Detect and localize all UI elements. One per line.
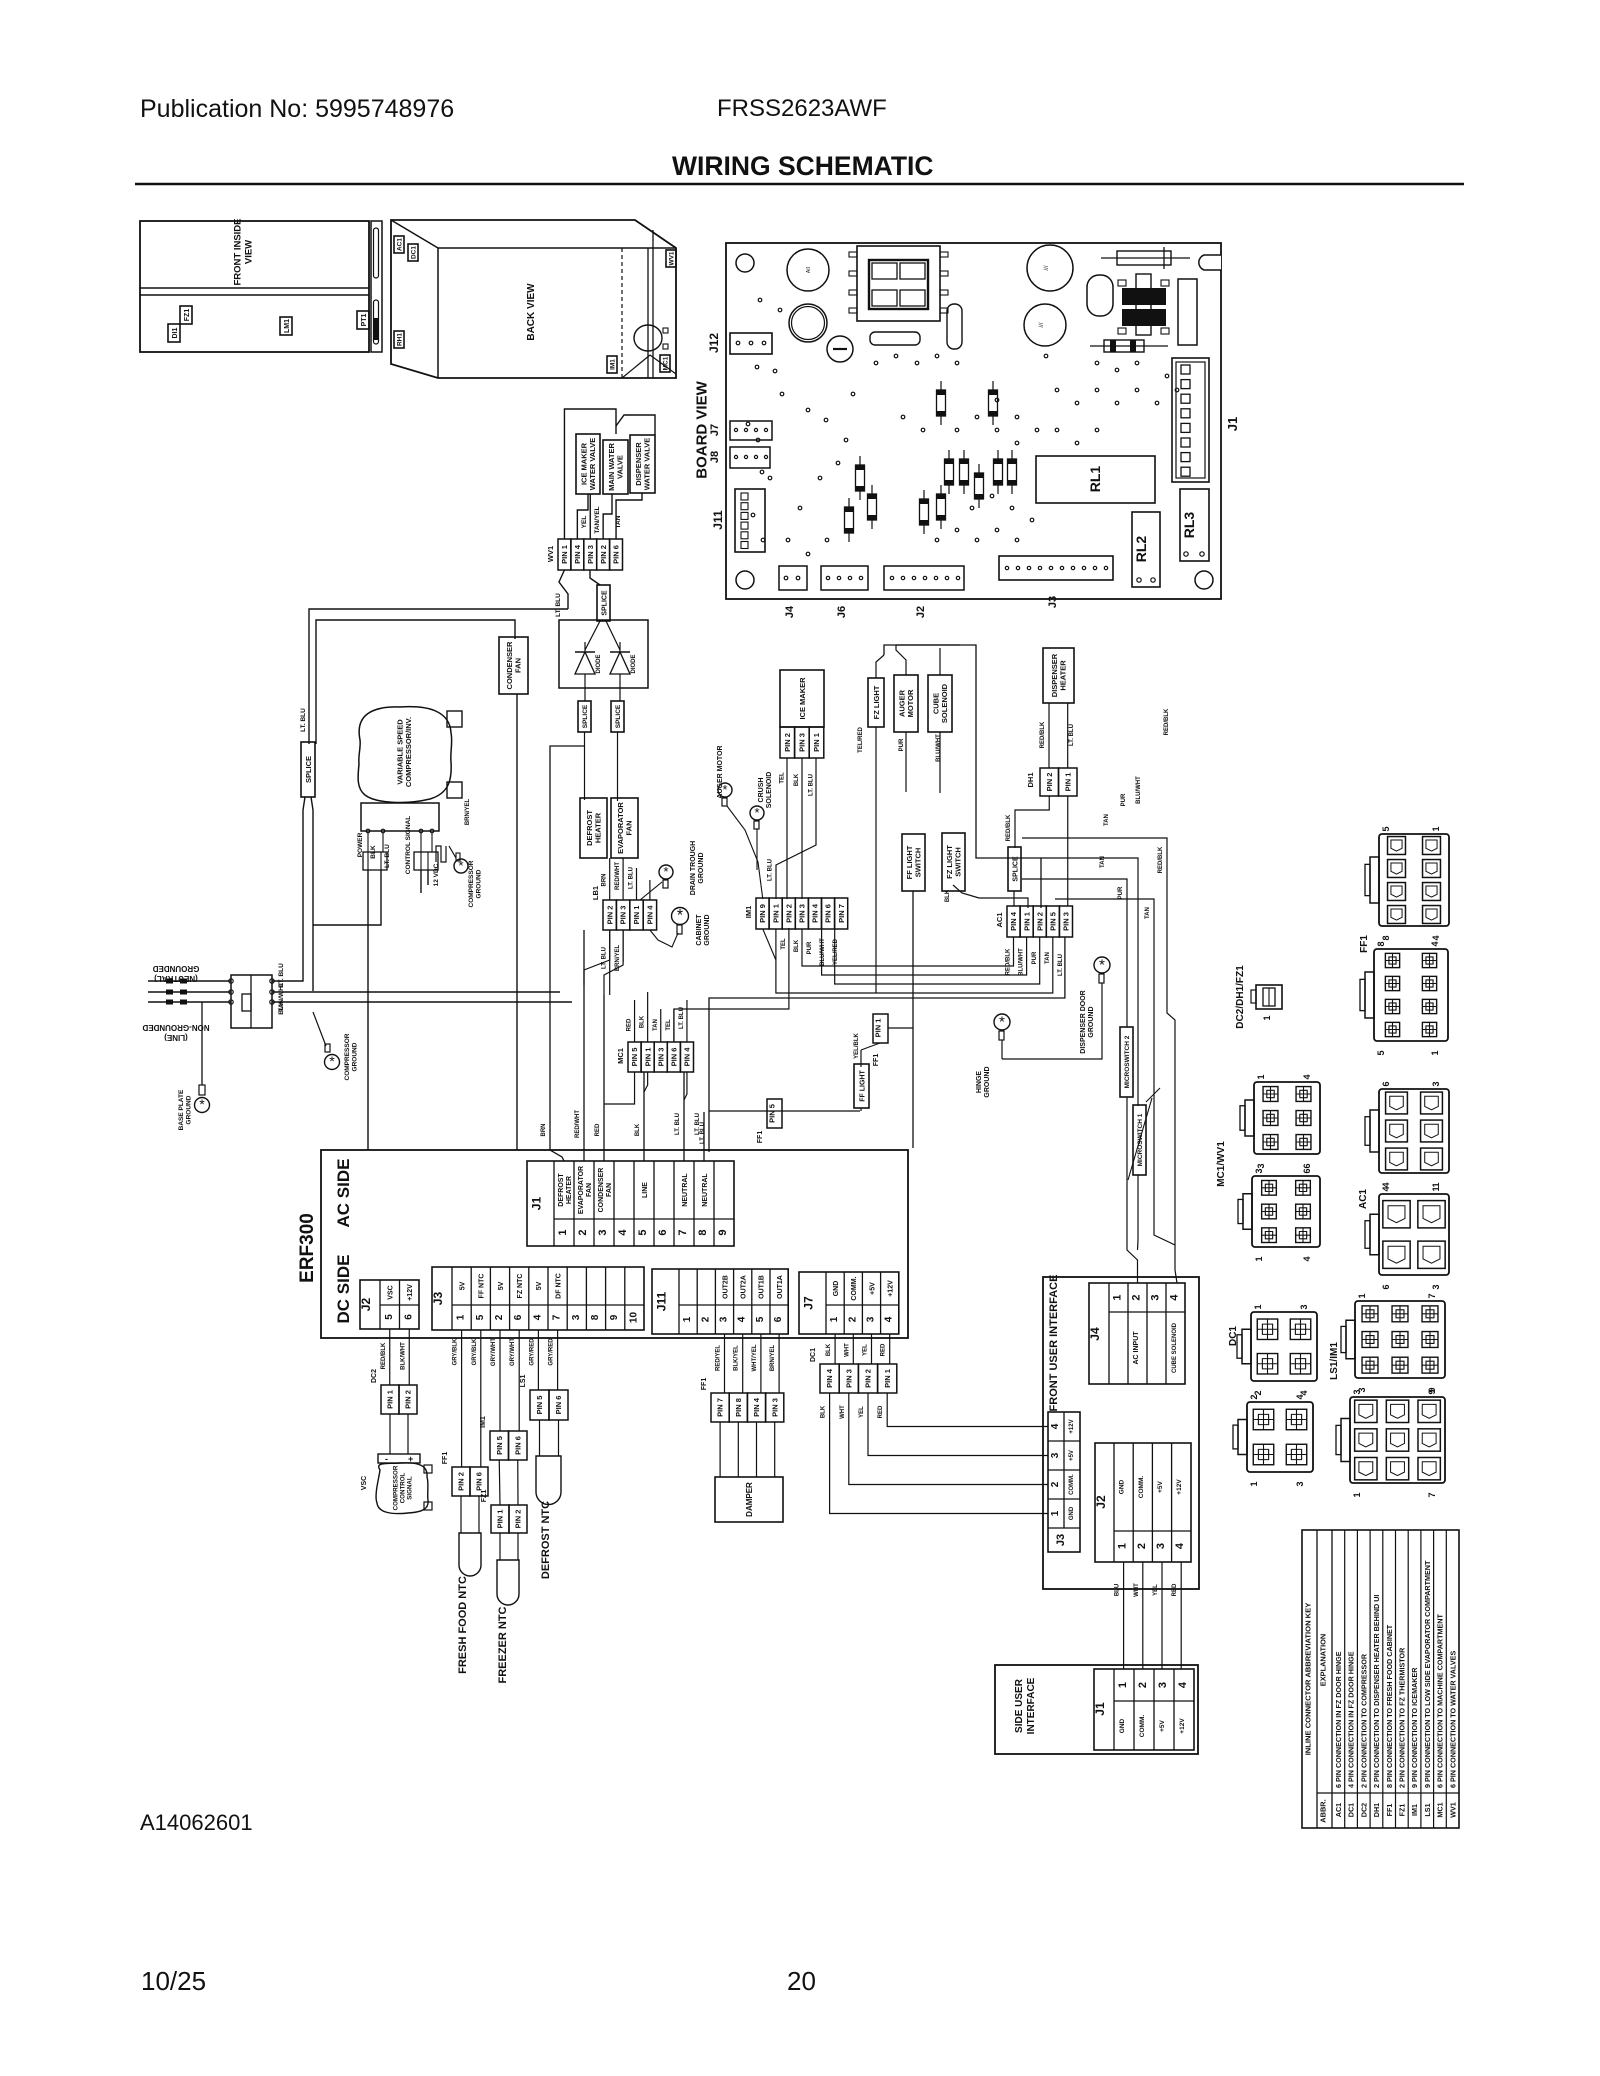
svg-text:+12V: +12V — [1069, 1419, 1075, 1433]
svg-text:5V: 5V — [459, 1281, 466, 1290]
back view outline — [391, 220, 676, 378]
svg-text:2 PIN CONNECTION TO DISPENSER: 2 PIN CONNECTION TO DISPENSER HEATER BEH… — [1372, 1595, 1381, 1788]
svg-text:5: 5 — [1376, 1050, 1386, 1055]
svg-text:PIN 1: PIN 1 — [1063, 773, 1072, 792]
wires DC1 to front UI J3 — [830, 1393, 1048, 1514]
defrost NTC bulb — [539, 1420, 541, 1456]
svg-text:CRUSH: CRUSH — [758, 778, 765, 803]
svg-text:3: 3 — [1155, 1543, 1167, 1549]
label DC1 back — [408, 244, 418, 261]
label non-grounded line — [142, 1023, 209, 1042]
power cord lines — [148, 980, 231, 982]
board resistor R-top — [1101, 257, 1190, 259]
diode D2 — [610, 652, 630, 674]
board connector J12 — [730, 333, 772, 354]
wire splice1 branch to board rail — [550, 746, 585, 1161]
label PT1 — [357, 311, 369, 329]
svg-text:PUR: PUR — [807, 941, 813, 954]
control signal wires down — [420, 870, 422, 893]
DC2 pin header — [381, 1385, 399, 1414]
svg-text:1: 1 — [1262, 1015, 1272, 1020]
svg-text:FF1: FF1 — [757, 1131, 764, 1144]
svg-text:RL1: RL1 — [1087, 466, 1103, 493]
board cap small — [870, 332, 920, 345]
svg-text:DISPENSER DOOR: DISPENSER DOOR — [1080, 990, 1087, 1053]
svg-text:GRY/WHT: GRY/WHT — [510, 1338, 516, 1366]
svg-text:6 PIN CONNECTION TO WATER VALV: 6 PIN CONNECTION TO WATER VALVES — [1448, 1651, 1457, 1788]
wire evap to LB1 RED/WHT — [622, 858, 624, 900]
svg-text:PIN 6: PIN 6 — [513, 1436, 522, 1455]
svg-text:GND: GND — [1119, 1479, 1126, 1494]
svg-text:FRESH FOOD NTC: FRESH FOOD NTC — [457, 1576, 469, 1674]
svg-text:7: 7 — [1427, 1492, 1437, 1497]
svg-text:RED/BLK: RED/BLK — [381, 1342, 387, 1369]
dispenser heater box — [1043, 648, 1074, 703]
condenser fan — [499, 637, 528, 694]
wire J3 col2 GRY/WHT — [499, 1330, 501, 1431]
svg-text:NEUTRAL: NEUTRAL — [702, 1173, 709, 1207]
wire J7 col1 BLK — [834, 1334, 836, 1364]
svg-text:PIN 1: PIN 1 — [560, 545, 569, 564]
board connector J2 — [884, 566, 964, 590]
wire TEL IM1 pin2 to MC1 — [674, 928, 789, 1042]
svg-text:OUT2B: OUT2B — [722, 1275, 729, 1299]
svg-text:J2: J2 — [359, 1298, 373, 1312]
svg-text:FF1: FF1 — [701, 1378, 708, 1391]
svg-text:PIN 6: PIN 6 — [612, 545, 621, 564]
svg-text:NEUTRAL: NEUTRAL — [682, 1173, 689, 1207]
12 VDC square wave — [436, 846, 446, 862]
svg-text:COMPRESSOR/INV.: COMPRESSOR/INV. — [404, 717, 413, 787]
svg-text:J3: J3 — [1055, 1534, 1067, 1546]
svg-text:1: 1 — [1254, 1256, 1264, 1261]
svg-text:GROUND: GROUND — [475, 869, 482, 898]
svg-text:RED: RED — [627, 1018, 633, 1031]
svg-text:PIN 2: PIN 2 — [783, 733, 792, 752]
svg-text:DC1: DC1 — [411, 246, 418, 259]
svg-text:WIRING SCHEMATIC: WIRING SCHEMATIC — [672, 151, 934, 181]
label FZ1 — [180, 306, 192, 324]
svg-text:1: 1 — [1256, 1074, 1266, 1079]
svg-text:SOLENOID: SOLENOID — [766, 772, 773, 809]
wire crush solenoid stub — [756, 829, 758, 870]
svg-text:J6: J6 — [836, 606, 848, 618]
abbreviation key table — [1302, 1530, 1459, 1828]
base plate ground lug — [195, 1098, 210, 1113]
svg-text:3: 3 — [1352, 1389, 1362, 1394]
svg-text:BLK: BLK — [945, 889, 951, 902]
wire BLU/WHT through microswitch 1 — [1041, 858, 1138, 1106]
svg-text:PIN 1: PIN 1 — [386, 1390, 395, 1409]
wires IM1 to FZ1 — [498, 1460, 501, 1505]
svg-text:2: 2 — [847, 1316, 858, 1322]
svg-text:J8: J8 — [709, 451, 721, 463]
svg-text:OUT1A: OUT1A — [777, 1275, 784, 1299]
svg-text:4: 4 — [1430, 941, 1440, 946]
svg-text:8 PIN CONNECTION TO FRESH FOOD: 8 PIN CONNECTION TO FRESH FOOD CABINET — [1385, 1624, 1394, 1788]
svg-text:YEL/RED: YEL/RED — [833, 938, 839, 965]
svg-text:Publication No: 5995748976: Publication No: 5995748976 — [140, 95, 454, 123]
svg-text:PIN 9: PIN 9 — [758, 904, 767, 923]
svg-text:1: 1 — [1117, 1682, 1129, 1688]
svg-text:3: 3 — [1299, 1304, 1309, 1309]
svg-text:LT. BLU: LT. BLU — [1058, 954, 1064, 976]
svg-text:4: 4 — [1174, 1542, 1186, 1549]
WV1 pin header — [558, 539, 571, 570]
svg-text:*: * — [199, 1097, 205, 1113]
svg-text:ERF300: ERF300 — [297, 1213, 318, 1283]
svg-text:1: 1 — [1431, 826, 1441, 831]
svg-text:LT. BLU: LT. BLU — [675, 1113, 681, 1135]
wire ice maker pin2 to IM1 — [786, 758, 788, 899]
wire WV1 pin2 TAN/YEL — [603, 494, 612, 539]
svg-text:4: 4 — [1302, 1256, 1312, 1261]
svg-text:DC1: DC1 — [1347, 1803, 1356, 1817]
board transformer T1 — [857, 246, 940, 321]
svg-text:MC1/WV1: MC1/WV1 — [1216, 1141, 1227, 1187]
svg-text:MC1: MC1 — [1436, 1802, 1445, 1817]
back view top edge — [391, 220, 438, 248]
wire J3 col4 GRY/RED — [537, 1330, 539, 1390]
svg-text:J2: J2 — [1094, 1495, 1108, 1509]
svg-text:LT. BLU: LT. BLU — [602, 947, 608, 969]
svg-text:PIN 3: PIN 3 — [1062, 912, 1071, 931]
wire J3 col6 GRY/WHT — [518, 1330, 520, 1431]
board connector J6 — [821, 566, 868, 590]
svg-text:J11: J11 — [655, 1291, 669, 1311]
board connector J7 — [730, 421, 772, 440]
svg-text:RED/BLK: RED/BLK — [1006, 814, 1012, 841]
svg-text:INTERFACE: INTERFACE — [1026, 1677, 1037, 1734]
abbr row MC1 — [1433, 1530, 1435, 1828]
svg-text:HEATER: HEATER — [594, 812, 603, 843]
wire ff light to pin5 — [860, 1050, 862, 1067]
wire WV1 pin3 to splice — [590, 570, 600, 585]
compressor terminals — [447, 711, 462, 727]
wire DH1 pin2 down — [1015, 796, 1049, 848]
evaporator fan — [611, 798, 638, 858]
wire hinge ground — [1001, 1040, 1003, 1059]
wire J11 col4 BLK/YEL — [742, 1334, 744, 1393]
label MC1 back — [660, 355, 670, 372]
svg-text:PIN 3: PIN 3 — [770, 1398, 779, 1417]
svg-text:WHT: WHT — [840, 1405, 846, 1419]
svg-text:LT. BLU: LT. BLU — [809, 774, 815, 796]
connector DC1 view1 — [1251, 1312, 1317, 1381]
wire cluster top loop — [884, 645, 1041, 908]
svg-text:CONDENSER: CONDENSER — [598, 1168, 605, 1213]
svg-text:3: 3 — [571, 1314, 582, 1320]
svg-text:3: 3 — [1254, 1168, 1264, 1173]
wire fz light TEL/RED down — [875, 727, 877, 993]
wire splice down to AC1 — [1013, 891, 1015, 906]
svg-text:COMM.: COMM. — [1138, 1476, 1145, 1499]
wires J2 to side UI — [1123, 1562, 1125, 1669]
wire fz light top — [876, 655, 884, 678]
svg-text:6: 6 — [773, 1316, 784, 1322]
svg-text:2: 2 — [494, 1314, 505, 1320]
svg-text:FF NTC: FF NTC — [479, 1274, 486, 1299]
ERF300 connector J11 table — [652, 1269, 788, 1334]
svg-text:-: - — [385, 1454, 388, 1464]
svg-text:WHT/YEL: WHT/YEL — [752, 1344, 758, 1371]
svg-text:J1: J1 — [1225, 417, 1240, 431]
svg-text:VIEW: VIEW — [243, 240, 254, 264]
wire J7 col4 RED — [889, 1334, 891, 1364]
svg-text:BRN: BRN — [541, 1124, 547, 1137]
abbr row FZ1 — [1395, 1530, 1397, 1828]
svg-text:AII: AII — [806, 267, 812, 273]
svg-text:DAMPER: DAMPER — [745, 1482, 754, 1517]
back view front face — [437, 248, 439, 378]
svg-text:BRN/YEL: BRN/YEL — [465, 799, 471, 826]
svg-text:FZ LIGHT: FZ LIGHT — [872, 685, 881, 719]
svg-text:+5V: +5V — [869, 1282, 876, 1295]
svg-text:RED/BLK: RED/BLK — [1164, 708, 1170, 735]
svg-text:HEATER: HEATER — [1059, 660, 1068, 691]
svg-text:PIN 2: PIN 2 — [1035, 912, 1044, 931]
svg-text:COMPRESSOR: COMPRESSOR — [344, 1033, 351, 1080]
svg-text:1: 1 — [1249, 1481, 1259, 1486]
svg-text:GROUND: GROUND — [698, 852, 705, 883]
svg-text:MC1: MC1 — [663, 356, 670, 370]
DC1 pin header — [820, 1364, 839, 1393]
ERF300 connector J2 table — [360, 1280, 419, 1329]
svg-text:5: 5 — [384, 1314, 395, 1320]
wire LB1 pin4 to cabinet ground — [650, 930, 678, 947]
svg-text:6: 6 — [1302, 1168, 1312, 1173]
board connector J8 — [730, 447, 770, 468]
svg-text:CABINET: CABINET — [696, 914, 703, 946]
svg-text:9 PIN CONNECTION TO ICEMAKER: 9 PIN CONNECTION TO ICEMAKER — [1410, 1667, 1419, 1788]
svg-text:GROUND: GROUND — [185, 1095, 192, 1124]
svg-text:DRAIN TROUGH: DRAIN TROUGH — [690, 841, 697, 895]
svg-text:1: 1 — [1253, 1304, 1263, 1309]
svg-text:PIN 2: PIN 2 — [457, 1472, 466, 1491]
svg-text:PUR: PUR — [1121, 793, 1127, 806]
board connector J3 — [999, 556, 1113, 580]
svg-text:AC SIDE: AC SIDE — [334, 1159, 353, 1228]
svg-text:MC1: MC1 — [616, 1048, 625, 1064]
back view compressor — [634, 325, 662, 351]
svg-text:BLU/WHT: BLU/WHT — [1136, 776, 1142, 804]
svg-text:DEFROST NTC: DEFROST NTC — [540, 1501, 552, 1579]
connector MC1/WV1 view2 — [1252, 1176, 1320, 1247]
svg-text:6 PIN CONNECTION IN FZ DOOR HI: 6 PIN CONNECTION IN FZ DOOR HINGE — [1334, 1651, 1343, 1788]
board view outline — [726, 243, 1221, 599]
wire ff1 pin1 — [888, 1027, 913, 1029]
wire J3 col1 GRY/BLK — [461, 1330, 463, 1467]
svg-text:1: 1 — [682, 1316, 693, 1322]
svg-text:3: 3 — [1431, 1081, 1441, 1086]
connector DC2/DH1/FZ1 — [1256, 985, 1282, 1009]
svg-text:FRONT INSIDE: FRONT INSIDE — [232, 218, 243, 285]
AC1 pin header — [1007, 906, 1020, 937]
svg-text:SOLENOID: SOLENOID — [940, 683, 949, 723]
svg-text:FZ1: FZ1 — [481, 1490, 488, 1503]
svg-text:PIN 3: PIN 3 — [844, 1369, 853, 1388]
wire big loop top — [309, 609, 568, 744]
svg-text:WATER VALVE: WATER VALVE — [643, 438, 652, 491]
svg-text:PUR: PUR — [1032, 951, 1038, 964]
ERF300 board outline — [321, 1150, 908, 1338]
svg-text:LT. BLU: LT. BLU — [695, 1113, 701, 1135]
wire auger top — [896, 645, 906, 675]
svg-text:FZ1: FZ1 — [1397, 1804, 1406, 1817]
svg-text:RED/YEL: RED/YEL — [716, 1345, 722, 1371]
svg-text:WV1: WV1 — [669, 251, 676, 265]
svg-text:*: * — [754, 805, 759, 820]
svg-text:GROUND: GROUND — [351, 1042, 358, 1071]
svg-text:GND: GND — [833, 1281, 840, 1297]
FF1 PIN5 box — [767, 1099, 782, 1128]
svg-text:FRSS2623AWF: FRSS2623AWF — [717, 95, 887, 122]
svg-text:AC1: AC1 — [995, 912, 1004, 927]
svg-text:PIN 1: PIN 1 — [496, 1510, 505, 1529]
svg-text:1: 1 — [557, 1229, 569, 1235]
svg-text:PIN 1: PIN 1 — [1022, 912, 1031, 931]
svg-text:AC1: AC1 — [1358, 1189, 1369, 1209]
svg-text:FF LIGHT: FF LIGHT — [859, 1070, 866, 1102]
svg-text:PIN 2: PIN 2 — [605, 906, 614, 925]
svg-text:SPLICE: SPLICE — [601, 590, 608, 616]
wire ice maker pin3 to IM1 — [801, 758, 803, 899]
wire J3 col7 GRY/RED — [557, 1330, 559, 1390]
FF1 PIN1 box — [873, 1014, 888, 1043]
back view panel lines — [647, 248, 649, 378]
svg-text:RED: RED — [878, 1405, 884, 1418]
ice maker box — [780, 670, 824, 727]
front inside view outline — [140, 221, 369, 352]
svg-text:MICROSWITCH 2: MICROSWITCH 2 — [1124, 1035, 1131, 1088]
wire dispenser heater RED/BLK — [1048, 703, 1050, 768]
svg-text:DC2/DH1/FZ1: DC2/DH1/FZ1 — [1235, 965, 1246, 1029]
svg-text:CONTROL SIGNAL: CONTROL SIGNAL — [405, 816, 412, 874]
svg-text:FRONT USER INTERFACE: FRONT USER INTERFACE — [1048, 1275, 1060, 1412]
back view bottom corner lines — [622, 355, 650, 378]
svg-text:PT1: PT1 — [361, 313, 368, 326]
svg-text:BLK: BLK — [640, 1015, 646, 1028]
microswitch lever — [1128, 1098, 1152, 1180]
svg-text:PIN 2: PIN 2 — [864, 1369, 873, 1388]
svg-text:BACK VIEW: BACK VIEW — [526, 283, 537, 341]
svg-text:3: 3 — [719, 1316, 730, 1322]
wire J11 col6 BRN/YEL — [778, 1334, 780, 1393]
svg-text:4: 4 — [1050, 1423, 1061, 1429]
crush solenoid lug — [750, 806, 764, 820]
svg-text:PIN 8: PIN 8 — [734, 1398, 743, 1417]
svg-text:PIN 5: PIN 5 — [495, 1436, 504, 1455]
svg-text:J1: J1 — [530, 1197, 544, 1211]
svg-text:LS1: LS1 — [520, 1374, 527, 1387]
svg-text:LS1: LS1 — [1423, 1803, 1432, 1816]
svg-text:LB1: LB1 — [591, 886, 600, 900]
svg-text:6: 6 — [657, 1229, 669, 1235]
wire J7 col2 WHT — [852, 1334, 854, 1364]
cabinet ground lug — [672, 908, 689, 925]
wire J2 pin5 RED/BLK — [389, 1329, 391, 1385]
svg-text:SIGNAL: SIGNAL — [406, 1476, 413, 1500]
board connector J11 — [735, 489, 765, 552]
wire IM1 pin3 to AC1 pin4 — [802, 929, 1014, 966]
ERF300 connector J1 table — [527, 1161, 734, 1246]
label IM1 back — [607, 356, 617, 373]
svg-text:4: 4 — [1169, 1294, 1181, 1301]
svg-text:J2: J2 — [915, 606, 927, 618]
freezer NTC bulb — [499, 1533, 501, 1560]
svg-text:SIDE USER: SIDE USER — [1014, 1678, 1025, 1733]
svg-text:IM1: IM1 — [1410, 1804, 1419, 1816]
wire J2 pin6 BLK/WHT — [408, 1329, 410, 1385]
wire J7 col3 YEL — [871, 1334, 873, 1364]
svg-text:BLU: BLU — [1115, 1584, 1121, 1596]
svg-text:*: * — [329, 1054, 335, 1070]
svg-text:SPLICE: SPLICE — [615, 704, 622, 728]
svg-text:FF1: FF1 — [1359, 935, 1370, 953]
svg-text:TEL: TEL — [666, 1019, 672, 1031]
svg-text:PIN 3: PIN 3 — [619, 906, 628, 925]
svg-text:3: 3 — [1431, 1284, 1441, 1289]
svg-text:COMM.: COMM. — [851, 1276, 858, 1300]
svg-text:EVAPORATOR: EVAPORATOR — [578, 1166, 585, 1214]
svg-text:PIN 5: PIN 5 — [1048, 912, 1057, 931]
svg-text:ABBR.: ABBR. — [1318, 1799, 1327, 1822]
svg-text:3: 3 — [597, 1229, 609, 1235]
svg-text:BLK: BLK — [370, 845, 377, 859]
svg-text:2: 2 — [577, 1229, 589, 1235]
svg-text:PUR: PUR — [899, 738, 905, 751]
svg-text:2 PIN CONNECTION TO FZ THERMIS: 2 PIN CONNECTION TO FZ THERMISTOR — [1397, 1647, 1406, 1788]
svg-text:6: 6 — [513, 1314, 524, 1320]
splice dispenser — [1008, 847, 1021, 891]
svg-text:7: 7 — [1427, 1293, 1437, 1298]
wire auger lug — [727, 806, 763, 899]
svg-text:4: 4 — [532, 1314, 543, 1320]
svg-text:5: 5 — [755, 1316, 766, 1322]
svg-text:HINGE: HINGE — [976, 1071, 983, 1094]
svg-text:8: 8 — [590, 1314, 601, 1320]
wire power down — [367, 870, 369, 1150]
horizontal wire to FF light — [709, 1110, 860, 1112]
svg-text:GND: GND — [1069, 1506, 1075, 1520]
wire TAN/WHT right — [272, 991, 560, 993]
svg-text:///: /// — [1044, 265, 1050, 270]
hinge ground lug — [994, 1014, 1010, 1030]
svg-text:7: 7 — [677, 1229, 689, 1235]
svg-text:FF1: FF1 — [1385, 1804, 1394, 1817]
terminal block — [231, 975, 272, 1028]
svg-text:LT. BLU: LT. BLU — [629, 867, 635, 889]
svg-text:SWITCH: SWITCH — [914, 848, 923, 878]
svg-text:GROUND: GROUND — [1088, 1006, 1095, 1037]
svg-text:GRY/RED: GRY/RED — [529, 1338, 535, 1366]
svg-text:GND: GND — [1119, 1718, 1126, 1733]
svg-text:+12V: +12V — [1176, 1479, 1183, 1495]
svg-text:9 PIN CONNECTION TO LOW SIDE E: 9 PIN CONNECTION TO LOW SIDE EVAPORATOR … — [1423, 1560, 1432, 1788]
svg-text:BASE PLATE: BASE PLATE — [178, 1089, 185, 1130]
board cap C3 — [1027, 245, 1073, 291]
wire RED/BLK right column — [1022, 838, 1177, 1283]
svg-text:TAN: TAN — [615, 515, 622, 528]
svg-text:TEL: TEL — [779, 772, 785, 784]
ERF300 connector J7 table — [799, 1272, 899, 1334]
svg-text:VSC: VSC — [388, 1285, 395, 1299]
ERF300 connector J3 table — [432, 1267, 644, 1330]
splice D1 out — [578, 701, 591, 732]
svg-text:(NEUTRAL): (NEUTRAL) — [154, 974, 198, 983]
drain trough ground lug — [659, 865, 673, 879]
board resistors scattered — [940, 381, 942, 425]
